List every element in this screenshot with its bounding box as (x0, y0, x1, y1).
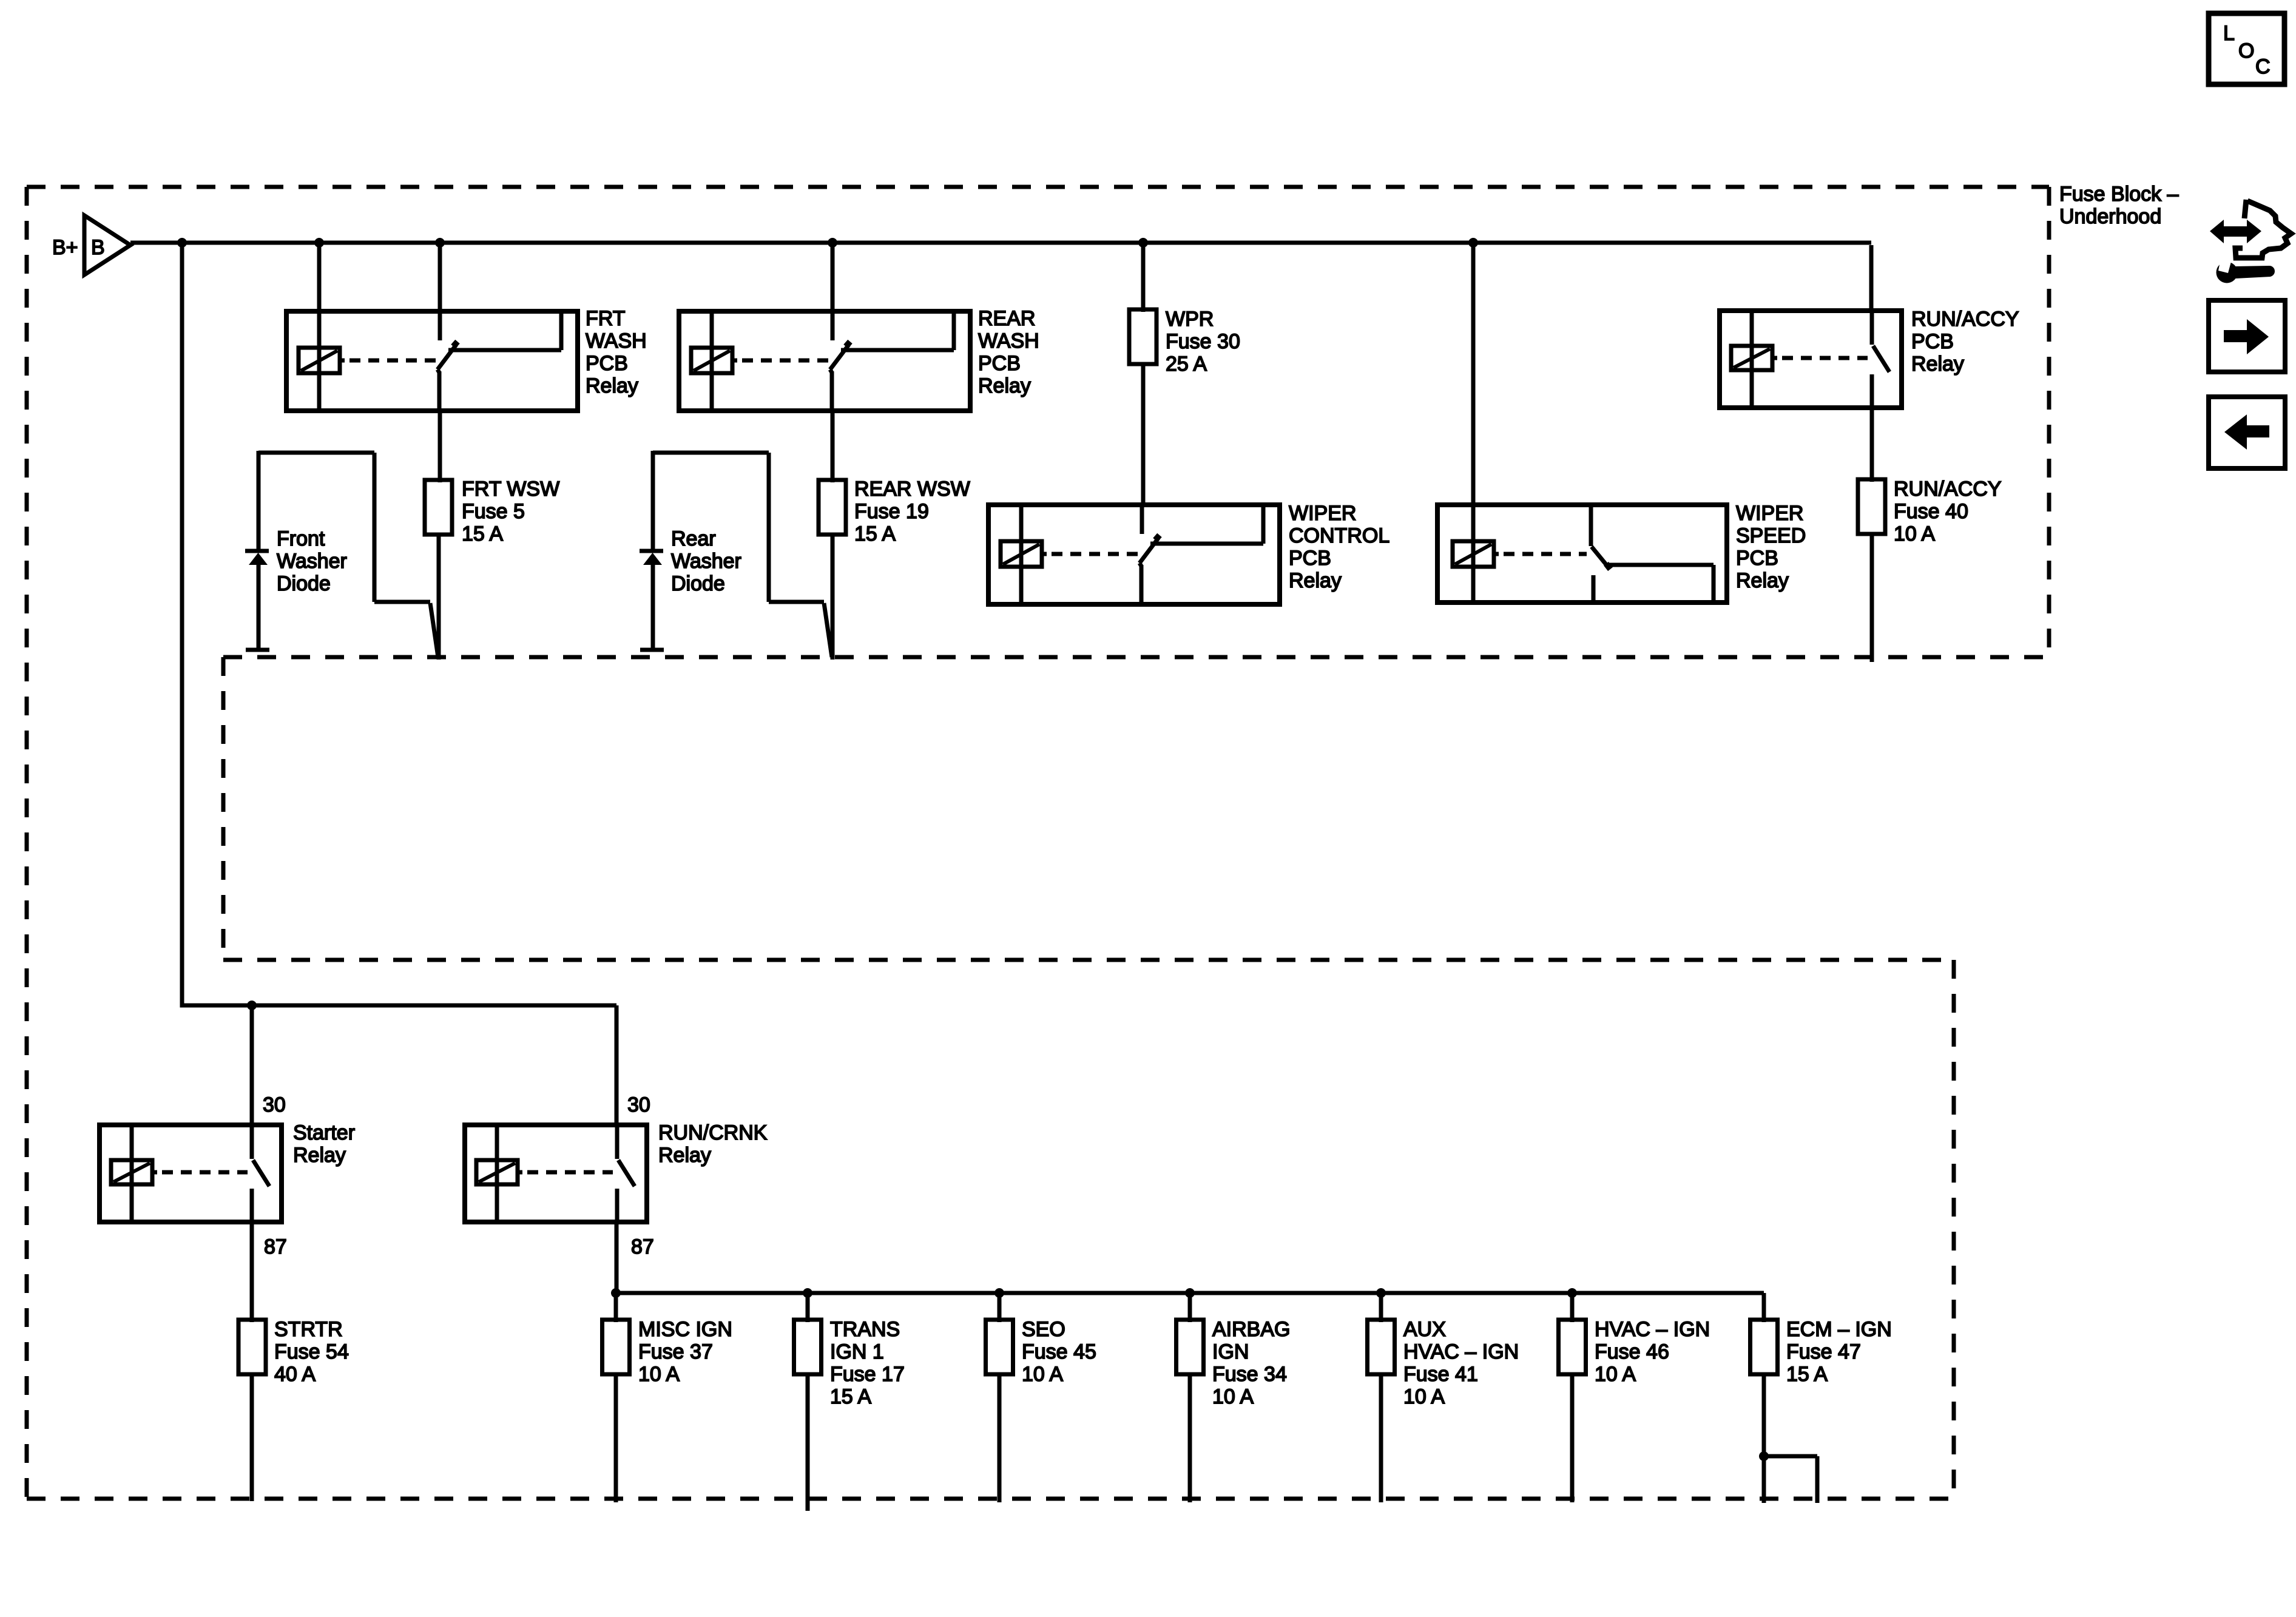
svg-text:WIPER: WIPER (1736, 502, 1803, 525)
svg-text:87: 87 (264, 1235, 287, 1258)
svg-text:REAR: REAR (978, 307, 1035, 330)
wire - ECM IGN output jog (1764, 1456, 1817, 1503)
fuse block boundary dashed outline - mid horizontal edge (223, 655, 2049, 660)
label ECM - IGN Fuse 47 15 A (1786, 1318, 1892, 1386)
label 87 starter (264, 1235, 287, 1258)
wire - slant merge into FRT WSW output (430, 603, 438, 657)
svg-text:Fuse 19: Fuse 19 (854, 500, 929, 523)
svg-text:Relay: Relay (293, 1144, 346, 1167)
wire - front washer diode branch top (258, 451, 374, 549)
fuse MISC IGN Fuse 37 (603, 1293, 630, 1502)
svg-text:Fuse 47: Fuse 47 (1786, 1340, 1861, 1363)
svg-text:WASH: WASH (978, 329, 1039, 353)
node - bus junction FRT WASH coil (314, 238, 324, 248)
svg-text:Diode: Diode (277, 572, 331, 595)
svg-text:15 A: 15 A (462, 522, 503, 545)
label STRTR Fuse 54 40 A (274, 1318, 349, 1386)
label FRT WSW Fuse 5 15 A (462, 478, 559, 545)
svg-text:Underhood: Underhood (2059, 205, 2161, 228)
node - bus junction WIPER SPEED coil (1468, 238, 1478, 248)
relay WIPER SPEED PCB - coil feed wire from bus (1471, 243, 1476, 541)
svg-text:Fuse 45: Fuse 45 (1022, 1340, 1096, 1363)
relay Starter Relay (100, 1125, 282, 1222)
svg-text:Front: Front (277, 527, 325, 550)
svg-text:Fuse 17: Fuse 17 (830, 1363, 905, 1386)
icon back arrow box (2209, 397, 2285, 468)
svg-text:Fuse 30: Fuse 30 (1166, 330, 1240, 353)
svg-text:Fuse 40: Fuse 40 (1894, 500, 1968, 523)
label WPR Fuse 30 25 A (1166, 308, 1240, 376)
node - bus junction at B+ drop (177, 238, 187, 248)
svg-text:STRTR: STRTR (274, 1318, 343, 1341)
wire - RUN/CRNK relay output to ignition bus (615, 1222, 619, 1293)
relay WIPER CONTROL PCB Relay (988, 505, 1280, 604)
svg-text:MISC IGN: MISC IGN (638, 1318, 732, 1341)
fuse REAR WSW Fuse 19 (819, 480, 846, 535)
svg-text:Fuse 46: Fuse 46 (1595, 1340, 1669, 1363)
label REAR WASH PCB Relay (978, 307, 1039, 397)
label TRANS IGN 1 Fuse 17 15 A (830, 1318, 905, 1408)
wire - slant merge into REAR WSW output (824, 603, 832, 657)
wire - WPR fuse output to WIPER CONTROL relay (1141, 364, 1146, 507)
wire - RUN/ACCY relay output (1870, 408, 1874, 482)
label WIPER SPEED PCB Relay (1736, 502, 1806, 592)
svg-text:Fuse Block –: Fuse Block – (2059, 183, 2179, 206)
node - bus junction REAR WASH switch (828, 238, 837, 248)
wire - FRT WSW fuse output to boundary (437, 535, 441, 660)
wire - FRT WASH relay output (438, 411, 442, 482)
svg-text:PCB: PCB (978, 352, 1021, 375)
svg-text:PCB: PCB (1736, 547, 1778, 570)
node - bus junction AIRBAG IGN (1185, 1288, 1195, 1298)
wire - STRTR fuse output to boundary (250, 1374, 254, 1501)
node - junction starter relay feed (247, 1001, 257, 1010)
svg-text:B+: B+ (52, 236, 78, 259)
svg-text:AIRBAG: AIRBAG (1212, 1318, 1290, 1341)
wire - front washer diode branch right (374, 453, 430, 602)
svg-text:Diode: Diode (671, 572, 725, 595)
wire - rear washer diode branch right (769, 453, 824, 602)
svg-text:15 A: 15 A (830, 1385, 871, 1408)
svg-text:10 A: 10 A (1212, 1385, 1254, 1408)
node - bus junction FRT WASH switch (435, 238, 445, 248)
icon forward arrow box (2209, 300, 2285, 372)
svg-text:Washer: Washer (671, 550, 741, 573)
svg-text:WASH: WASH (586, 329, 647, 353)
svg-text:B: B (91, 236, 105, 259)
label REAR WSW Fuse 19 15 A (854, 478, 970, 545)
node - bus junction MISC IGN (611, 1288, 621, 1298)
svg-text:15 A: 15 A (854, 522, 896, 545)
svg-text:10 A: 10 A (1403, 1385, 1445, 1408)
fuse block boundary dashed outline - bottom edge (27, 1497, 1954, 1501)
svg-text:SEO: SEO (1022, 1318, 1065, 1341)
label SEO Fuse 45 10 A (1022, 1318, 1096, 1386)
svg-text:RUN/ACCY: RUN/ACCY (1911, 308, 2019, 331)
svg-text:Relay: Relay (1736, 569, 1789, 592)
svg-text:15 A: 15 A (1786, 1363, 1828, 1386)
svg-text:FRT WSW: FRT WSW (462, 478, 559, 501)
label 30 starter (263, 1093, 286, 1116)
svg-text:30: 30 (627, 1093, 650, 1116)
label RUN/ACCY Fuse 40 10 A (1894, 478, 2002, 545)
fuse block boundary dashed outline - right edge upper (2047, 187, 2051, 657)
relay RUN/CRNK Relay (465, 1125, 647, 1222)
svg-text:RUN/ACCY: RUN/ACCY (1894, 478, 2002, 501)
label WIPER CONTROL PCB Relay (1289, 502, 1389, 592)
fuse RUN/ACCY Fuse 40 (1858, 479, 1885, 534)
relay REAR WASH PCB - switch feed wire (831, 243, 835, 311)
terminal - front washer diode to boundary (246, 648, 269, 652)
svg-text:WPR: WPR (1166, 308, 1214, 331)
svg-text:PCB: PCB (1911, 330, 1954, 353)
wire - B+ drop to lower section (182, 243, 616, 1005)
node - bus junction SEO (994, 1288, 1004, 1298)
svg-text:RUN/CRNK: RUN/CRNK (658, 1121, 768, 1144)
node - bus junction WPR fuse (1138, 238, 1148, 248)
wire - RUN/CRNK relay feed (615, 1005, 619, 1127)
relay FRT WASH PCB - switch feed wire (438, 243, 442, 311)
svg-text:PCB: PCB (586, 352, 628, 375)
svg-text:HVAC – IGN: HVAC – IGN (1403, 1340, 1519, 1363)
svg-text:Fuse 41: Fuse 41 (1403, 1363, 1478, 1386)
wire - rear washer diode branch top (653, 451, 769, 549)
fuse ECM - IGN Fuse 47 (1751, 1320, 1778, 1456)
label AIRBAG IGN Fuse 34 10 A (1212, 1318, 1290, 1408)
icon hand with connector double arrow and wrench (2210, 200, 2291, 283)
svg-text:C: C (2255, 55, 2271, 78)
terminal - rear washer diode to boundary (640, 648, 664, 652)
node - bus junction HVAC IGN (1567, 1288, 1577, 1298)
svg-text:AUX: AUX (1403, 1318, 1446, 1341)
node - bus junction AUX HVAC (1376, 1288, 1386, 1298)
svg-text:IGN 1: IGN 1 (830, 1340, 884, 1363)
icon LOC locator box (2209, 13, 2284, 84)
svg-text:Relay: Relay (586, 374, 638, 397)
fuse SEO Fuse 45 (986, 1293, 1013, 1502)
svg-text:CONTROL: CONTROL (1289, 524, 1389, 547)
label Rear Washer Diode (671, 527, 741, 595)
fuse block boundary dashed outline - left edge (25, 187, 29, 1499)
label HVAC - IGN Fuse 46 10 A (1595, 1318, 1710, 1386)
relay WIPER SPEED PCB Relay (1437, 505, 1727, 603)
svg-text:Relay: Relay (1289, 569, 1342, 592)
B+ power feed triangle with B (84, 215, 130, 275)
svg-text:Fuse 5: Fuse 5 (462, 500, 525, 523)
svg-text:Starter: Starter (293, 1121, 355, 1144)
svg-text:Fuse 37: Fuse 37 (638, 1340, 713, 1363)
svg-text:WIPER: WIPER (1289, 502, 1356, 525)
fuse STRTR Fuse 54 (238, 1320, 266, 1374)
label Front Washer Diode (277, 527, 347, 595)
wire - main B+ bus (130, 243, 1871, 313)
svg-text:10 A: 10 A (1022, 1363, 1063, 1386)
fuse block boundary dashed outline - right edge lower (1952, 960, 1956, 1499)
label RUN/CRNK Relay (658, 1121, 768, 1167)
svg-text:Relay: Relay (658, 1144, 711, 1167)
fuse HVAC - IGN Fuse 46 (1559, 1293, 1586, 1502)
svg-text:Fuse 54: Fuse 54 (274, 1340, 349, 1363)
B+ label (52, 236, 78, 259)
fuse block boundary dashed outline - notch vertical edge (221, 657, 226, 960)
svg-text:FRT: FRT (586, 307, 625, 330)
label 87 RUN/CRNK (631, 1235, 654, 1258)
wire - starter relay feed (250, 1005, 254, 1127)
svg-text:25 A: 25 A (1166, 353, 1207, 376)
label RUN/ACCY PCB Relay (1911, 308, 2019, 376)
fuse block boundary dashed outline - top edge (27, 185, 2049, 189)
label 30 RUN/CRNK (627, 1093, 650, 1116)
relay REAR WASH PCB Relay (679, 311, 970, 411)
fuse block boundary dashed outline - lower horizontal edge (223, 958, 1954, 962)
wire - REAR WSW fuse output to boundary (831, 535, 835, 660)
label MISC IGN Fuse 37 10 A (638, 1318, 732, 1386)
fuse AUX HVAC - IGN Fuse 41 (1368, 1293, 1395, 1502)
relay RUN/ACCY PCB Relay (1720, 311, 1902, 408)
svg-text:10 A: 10 A (1595, 1363, 1636, 1386)
svg-text:87: 87 (631, 1235, 654, 1258)
svg-text:TRANS: TRANS (830, 1318, 900, 1341)
wire - WPR fuse feed (1141, 243, 1146, 312)
svg-text:SPEED: SPEED (1736, 524, 1806, 547)
fuse AIRBAG IGN Fuse 34 (1177, 1293, 1204, 1502)
node - ECM IGN output junction (1759, 1451, 1769, 1461)
fuse FRT WSW Fuse 5 (425, 480, 452, 535)
label Starter Relay (293, 1121, 355, 1167)
diode Rear Washer Diode (640, 551, 663, 649)
label FRT WASH PCB Relay (586, 307, 647, 397)
fuse WPR Fuse 30 (1129, 309, 1156, 364)
svg-text:Rear: Rear (671, 527, 716, 550)
svg-text:Relay: Relay (1911, 353, 1964, 376)
wire - starter relay output (250, 1222, 254, 1322)
relay FRT WASH PCB Relay (286, 311, 578, 411)
svg-text:30: 30 (263, 1093, 286, 1116)
svg-text:10 A: 10 A (638, 1363, 680, 1386)
svg-text:Washer: Washer (277, 550, 347, 573)
label Fuse Block - Underhood (2059, 183, 2179, 228)
svg-text:O: O (2238, 39, 2254, 62)
svg-text:ECM – IGN: ECM – IGN (1786, 1318, 1892, 1341)
svg-text:IGN: IGN (1212, 1340, 1249, 1363)
svg-text:HVAC – IGN: HVAC – IGN (1595, 1318, 1710, 1341)
svg-text:L: L (2223, 22, 2235, 45)
fuse TRANS IGN 1 Fuse 17 (794, 1293, 822, 1511)
relay FRT WASH PCB - coil feed wire (317, 243, 322, 311)
svg-text:Relay: Relay (978, 374, 1031, 397)
svg-text:10 A: 10 A (1894, 522, 1935, 545)
svg-text:40 A: 40 A (274, 1363, 316, 1386)
wire - REAR WASH relay output (831, 411, 835, 482)
wire - RUN/ACCY fuse output to boundary (1870, 534, 1874, 662)
svg-text:REAR WSW: REAR WSW (854, 478, 970, 501)
diode Front Washer Diode (245, 551, 269, 649)
label AUX HVAC - IGN Fuse 41 10 A (1403, 1318, 1519, 1408)
node - bus junction TRANS IGN (803, 1288, 812, 1298)
wire - ignition feed bus (616, 1293, 1764, 1322)
svg-text:PCB: PCB (1289, 547, 1331, 570)
svg-text:Fuse 34: Fuse 34 (1212, 1363, 1287, 1386)
